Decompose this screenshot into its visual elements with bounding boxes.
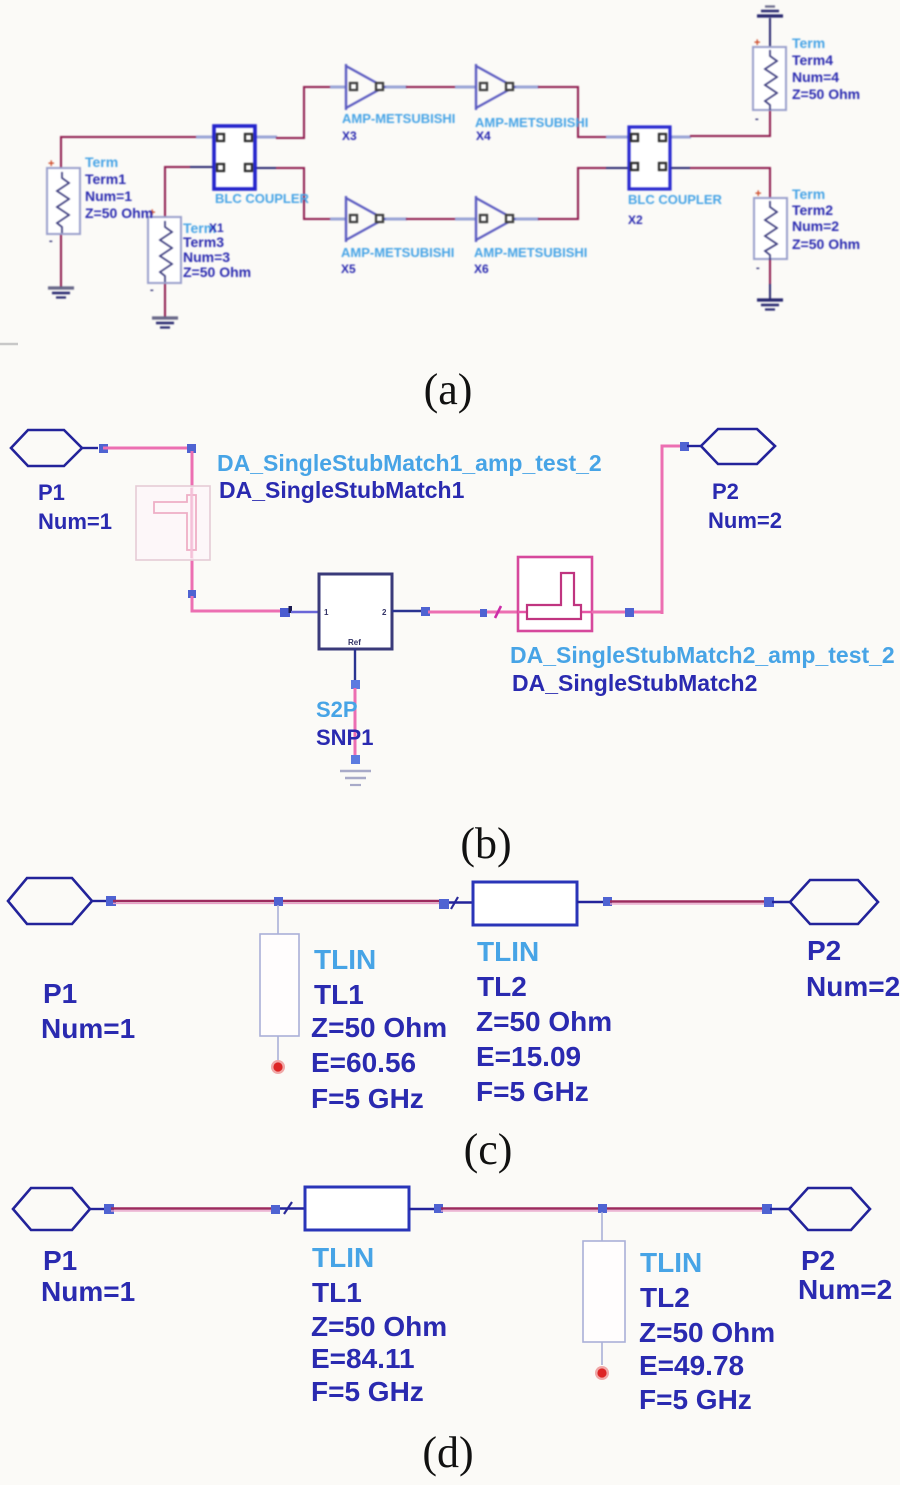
- wire corner to S2P (b): [192, 596, 280, 611]
- svg-text:Z=50 Ohm: Z=50 Ohm: [639, 1317, 775, 1348]
- red dot TL2 open end (d): [595, 1366, 609, 1380]
- svg-text:Num=4: Num=4: [792, 69, 839, 85]
- port P1 (c): [8, 878, 107, 924]
- svg-text:TLIN: TLIN: [477, 936, 539, 967]
- S2P block SNP1: [319, 574, 392, 649]
- wire amp X3 to amp X4: [384, 86, 477, 89]
- op-amp X3: [346, 64, 384, 110]
- label TL2 (c): [476, 936, 612, 1107]
- wire S2P pin3 down (b): [351, 649, 360, 764]
- wire Term2 to ground: [769, 258, 771, 299]
- label P1 (c): [41, 978, 135, 1044]
- caption (b): [460, 819, 511, 868]
- svg-text:F=5 GHz: F=5 GHz: [639, 1384, 752, 1415]
- svg-text:+: +: [754, 37, 760, 49]
- svg-text:TL1: TL1: [312, 1277, 362, 1308]
- ground Term4: [757, 7, 783, 17]
- wire Term3 to coupler X1 port2: [165, 167, 216, 218]
- artifact gray mark left: [0, 343, 18, 346]
- node after TL2 (c): [603, 897, 612, 906]
- node above corner2 (b): [188, 590, 196, 598]
- svg-text:P2: P2: [807, 935, 841, 966]
- wire coupler X2 port3 to Term4: [666, 110, 770, 137]
- label amp X3: [342, 111, 455, 143]
- op-amp X4: [476, 64, 514, 110]
- svg-text:X5: X5: [341, 262, 356, 276]
- node shunt TL1 (c): [274, 897, 283, 906]
- wire stub2 to node (b): [592, 608, 661, 617]
- svg-text:Num=1: Num=1: [41, 1276, 135, 1307]
- wire main right (c): [610, 902, 766, 904]
- svg-text:+: +: [48, 158, 54, 170]
- svg-text:2: 2: [382, 608, 387, 617]
- svg-text:Num=2: Num=2: [708, 508, 782, 533]
- wire amp X5 to amp X6: [384, 218, 477, 221]
- wire main left (c): [113, 901, 441, 903]
- resistor Term4: [753, 37, 786, 125]
- svg-text:(d): (d): [422, 1428, 473, 1477]
- port P1 (b): [11, 430, 98, 466]
- node and wire into S2P pin1: [280, 606, 319, 617]
- svg-text:Num=1: Num=1: [85, 188, 132, 204]
- resistor Term2: [754, 188, 787, 274]
- svg-text:X2: X2: [628, 213, 643, 227]
- op-amp X6: [476, 196, 514, 242]
- node at P2 (b): [680, 442, 689, 451]
- series line TL2 (c): [473, 882, 604, 925]
- resistor Term1: [47, 158, 80, 247]
- svg-text:Term2: Term2: [792, 202, 833, 218]
- svg-text:X3: X3: [342, 129, 357, 143]
- svg-text:-: -: [756, 262, 760, 274]
- svg-text:Z=50 Ohm: Z=50 Ohm: [311, 1311, 447, 1342]
- label Term1: [85, 154, 153, 221]
- label TL2 (d): [639, 1247, 775, 1415]
- svg-text:Z=50 Ohm: Z=50 Ohm: [311, 1012, 447, 1043]
- svg-text:Z=50 Ohm: Z=50 Ohm: [792, 236, 860, 252]
- svg-text:E=60.56: E=60.56: [311, 1047, 416, 1078]
- svg-text:Term: Term: [792, 186, 825, 202]
- stub1 outer box DA_SingleStubMatch1: [136, 486, 210, 560]
- node P2 (c): [764, 897, 774, 907]
- svg-text:Term: Term: [792, 35, 825, 51]
- label P2 (d): [798, 1245, 892, 1305]
- svg-text:AMP-METSUBISHI: AMP-METSUBISHI: [342, 111, 455, 126]
- node at P1 wire: [99, 444, 108, 453]
- ground Term3: [152, 318, 178, 328]
- svg-text:Z=50 Ohm: Z=50 Ohm: [792, 86, 860, 102]
- svg-text:AMP-METSUBISHI: AMP-METSUBISHI: [341, 245, 454, 260]
- svg-text:X4: X4: [476, 129, 491, 143]
- svg-text:P1: P1: [43, 1245, 77, 1276]
- coupler X2: [629, 127, 670, 189]
- stub2 microstrip shape: [527, 573, 581, 619]
- svg-text:Term3: Term3: [183, 234, 224, 250]
- pin slash marker before stub2: [495, 606, 501, 618]
- svg-text:AMP-METSUBISHI: AMP-METSUBISHI: [475, 115, 588, 130]
- ground SNP1: [340, 771, 371, 785]
- svg-text:Num=2: Num=2: [806, 971, 900, 1002]
- node before stub2: [480, 609, 487, 617]
- label S2P SNP1: [316, 697, 373, 750]
- svg-text:Ref: Ref: [348, 638, 361, 647]
- label P2 (b): [708, 479, 782, 533]
- wire coupler X1 port3 to amp X3 input: [251, 87, 347, 138]
- red dot TL1 open end (c): [271, 1060, 285, 1074]
- port P1 (d): [13, 1188, 105, 1230]
- ground Term2: [757, 300, 783, 310]
- label Term4: [792, 35, 860, 102]
- wire S2P pin2 to stub2 (b): [392, 607, 518, 616]
- label TL1 (d): [311, 1242, 447, 1407]
- svg-text:Z=50 Ohm: Z=50 Ohm: [476, 1006, 612, 1037]
- label coupler X1: [209, 191, 310, 235]
- svg-text:SNP1: SNP1: [316, 725, 373, 750]
- svg-text:(a): (a): [424, 365, 473, 414]
- svg-text:Z=50 Ohm: Z=50 Ohm: [183, 264, 251, 280]
- svg-text:AMP-METSUBISHI: AMP-METSUBISHI: [474, 245, 587, 260]
- node shunt TL2 (d): [598, 1204, 607, 1213]
- svg-text:TL2: TL2: [477, 971, 527, 1002]
- node and pin slash before TL1 (d): [271, 1202, 305, 1214]
- svg-text:E=15.09: E=15.09: [476, 1041, 581, 1072]
- svg-text:Num=2: Num=2: [792, 218, 839, 234]
- label coupler X2: [628, 192, 723, 227]
- label Term2: [792, 186, 860, 252]
- label DA_SingleStubMatch1: [217, 450, 602, 503]
- wire up to P2 (b): [662, 446, 684, 614]
- wire coupler X1 port4 to amp X5 input: [251, 168, 347, 219]
- caption (c): [464, 1125, 513, 1174]
- port P2 (d): [770, 1188, 870, 1230]
- svg-text:Num=1: Num=1: [41, 1013, 135, 1044]
- wire amp X6 output to coupler X2 port2: [514, 168, 631, 219]
- svg-text:Num=3: Num=3: [183, 249, 230, 265]
- op-amp X5: [346, 196, 384, 242]
- svg-text:P1: P1: [43, 978, 77, 1009]
- shunt stub TL2 (d): [583, 1212, 625, 1365]
- svg-text:F=5 GHz: F=5 GHz: [311, 1376, 424, 1407]
- svg-text:-: -: [755, 113, 759, 125]
- wire coupler X2 port4 to Term2: [666, 168, 770, 198]
- wire Term1 to coupler X1 port1: [61, 137, 216, 169]
- svg-text:P1: P1: [38, 480, 65, 505]
- svg-text:(b): (b): [460, 819, 511, 868]
- wire ground to Term4: [769, 18, 771, 47]
- wire down through stub1 (b): [191, 451, 194, 591]
- svg-text:DA_SingleStubMatch2_amp_test_2: DA_SingleStubMatch2_amp_test_2: [510, 642, 895, 668]
- svg-text:Z=50 Ohm: Z=50 Ohm: [85, 205, 153, 221]
- node after TL1 (d): [434, 1204, 443, 1213]
- svg-text:BLC COUPLER: BLC COUPLER: [215, 191, 310, 206]
- stub2 outer box DA_SingleStubMatch2: [518, 557, 592, 631]
- wire Term1 to ground: [60, 233, 62, 287]
- svg-text:Num=1: Num=1: [38, 509, 112, 534]
- svg-text:TL2: TL2: [640, 1282, 690, 1313]
- svg-text:1: 1: [324, 608, 329, 617]
- series line TL1 (d): [305, 1187, 436, 1230]
- caption (d): [422, 1428, 473, 1477]
- ground Term1: [48, 288, 74, 298]
- label P2 (c): [806, 935, 900, 1002]
- svg-text:(c): (c): [464, 1125, 513, 1174]
- port P2 (c): [772, 880, 878, 924]
- svg-text:DA_SingleStubMatch1: DA_SingleStubMatch1: [219, 477, 465, 503]
- svg-text:F=5 GHz: F=5 GHz: [476, 1076, 589, 1107]
- svg-text:Term: Term: [85, 154, 118, 170]
- svg-text:Term1: Term1: [85, 171, 126, 187]
- svg-text:E=84.11: E=84.11: [311, 1343, 415, 1374]
- svg-text:F=5 GHz: F=5 GHz: [311, 1083, 424, 1114]
- port P2 (b): [687, 429, 775, 464]
- svg-text:X6: X6: [474, 262, 489, 276]
- wire Term3 to ground: [164, 282, 166, 317]
- svg-text:-: -: [150, 284, 154, 296]
- svg-text:P2: P2: [712, 479, 739, 504]
- resistor Term3: [148, 207, 181, 296]
- svg-text:Num=2: Num=2: [798, 1274, 892, 1305]
- label amp X6: [474, 245, 587, 276]
- svg-text:Term4: Term4: [792, 52, 833, 68]
- svg-text:TLIN: TLIN: [640, 1247, 702, 1278]
- svg-text:DA_SingleStubMatch2: DA_SingleStubMatch2: [512, 670, 757, 696]
- label P1 (d): [41, 1245, 135, 1307]
- svg-text:P2: P2: [801, 1245, 835, 1276]
- label amp X4: [475, 115, 588, 143]
- label P1 (b): [38, 480, 112, 534]
- svg-text:-: -: [49, 235, 53, 247]
- node and pin slash before TL2 (c): [439, 897, 473, 909]
- svg-text:+: +: [755, 188, 761, 200]
- caption (a): [424, 365, 473, 414]
- svg-text:X1: X1: [209, 221, 224, 235]
- node P1 (c): [106, 896, 116, 906]
- label Term3: [183, 220, 251, 280]
- svg-text:S2P: S2P: [316, 697, 358, 722]
- node P2 (d): [762, 1204, 772, 1214]
- svg-text:BLC COUPLER: BLC COUPLER: [628, 192, 723, 207]
- svg-text:E=49.78: E=49.78: [639, 1350, 744, 1381]
- wire main right (d): [441, 1209, 764, 1211]
- node P1 (d): [104, 1204, 114, 1214]
- svg-text:DA_SingleStubMatch1_amp_test_2: DA_SingleStubMatch1_amp_test_2: [217, 450, 602, 476]
- svg-text:TL1: TL1: [314, 979, 364, 1010]
- label amp X5: [341, 245, 454, 276]
- stub1 microstrip shape: [154, 488, 196, 558]
- label DA_SingleStubMatch2: [510, 642, 895, 696]
- wire P1 to corner (b): [103, 447, 191, 450]
- shunt stub TL1 (c): [260, 905, 299, 1060]
- svg-text:TLIN: TLIN: [314, 944, 376, 975]
- label TL1 (c): [311, 944, 447, 1114]
- svg-text:TLIN: TLIN: [312, 1242, 374, 1273]
- coupler X1: [214, 126, 255, 189]
- wire amp X4 output to coupler X2 port1: [514, 87, 631, 137]
- wire main left (d): [111, 1209, 273, 1211]
- node corner (b): [187, 444, 196, 453]
